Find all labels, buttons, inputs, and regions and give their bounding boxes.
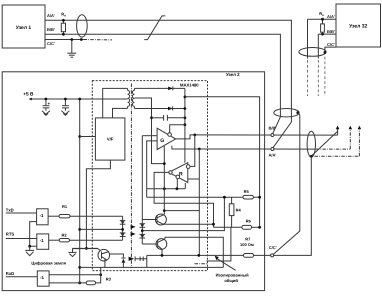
isolated common rail bbox=[147, 255, 244, 267]
wire B diagonal to terminal bbox=[273, 117, 281, 134]
isolated VCC rail right of transformer bbox=[184, 88, 186, 162]
resistor R6 bbox=[214, 225, 260, 229]
svg-text:общий: общий bbox=[224, 278, 238, 283]
junction dot C1 bbox=[45, 98, 48, 101]
resistor R4 bbox=[229, 197, 234, 227]
opto arrow 2 bbox=[131, 232, 136, 236]
junction dot A sense ground bbox=[197, 254, 200, 257]
wire gate3 input bottom R3 bbox=[49, 275, 101, 285]
wire RxD loop line bbox=[80, 266, 224, 268]
node box Узел 2 bbox=[2, 72, 264, 291]
terminal C/C' bbox=[271, 254, 274, 257]
svg-text:R1: R1 bbox=[62, 204, 68, 209]
junction dot A line bbox=[198, 148, 201, 151]
resistor R7 bbox=[244, 254, 271, 258]
twisted pair ellipse node1 bbox=[77, 15, 88, 37]
wire R output left down bbox=[154, 172, 213, 227]
junction dot rail RxD loop bbox=[78, 266, 81, 269]
svg-text:R2: R2 bbox=[62, 232, 68, 237]
junction dot gate2 input bbox=[28, 245, 31, 248]
wire A diagonal to terminal bbox=[273, 122, 291, 148]
cable break symbol bbox=[144, 16, 165, 40]
wire Q2 base bbox=[142, 243, 157, 245]
wire diagonal continuation solid arrow bbox=[312, 129, 338, 156]
svg-text:A/A': A/A' bbox=[269, 153, 277, 158]
junction dot center tap cap bbox=[150, 116, 153, 119]
wire TxD bbox=[6, 212, 37, 214]
svg-text:G: G bbox=[160, 138, 164, 144]
junction dot photo mid bbox=[141, 229, 144, 232]
arrow +5V bbox=[29, 98, 32, 101]
junction dot RxD top bbox=[99, 273, 102, 276]
arrow up dash-dot 3 bbox=[358, 126, 362, 130]
svg-text:A/A': A/A' bbox=[47, 13, 55, 18]
opto arrow 1 bbox=[131, 225, 136, 229]
junction dot C-ground node1 bbox=[70, 38, 73, 41]
junction dot shield-C node1 bbox=[80, 38, 83, 41]
wire VF input bbox=[80, 136, 96, 138]
wire transformer right bottom tap D2 line bbox=[134, 108, 185, 110]
junction dot sense 1 bbox=[163, 187, 166, 190]
bubble R input top bbox=[186, 165, 190, 169]
junction dot sense 2 bbox=[176, 187, 179, 190]
junction dot R5 left bbox=[223, 196, 226, 199]
junction dot rail R3 bbox=[78, 282, 81, 285]
ground earth node1 bbox=[67, 40, 76, 58]
opto arrow 3 bbox=[129, 256, 136, 261]
terminal B/B' bbox=[271, 134, 274, 137]
terminal A/A' bbox=[271, 148, 274, 151]
wire G bubble to VCC rail bbox=[170, 125, 185, 133]
svg-text:+5 В: +5 В bbox=[23, 91, 34, 97]
svg-text:Узел 2: Узел 2 bbox=[226, 72, 240, 77]
wire B sense drop bbox=[190, 135, 195, 167]
junction dot R6 right bbox=[258, 226, 261, 229]
junction dot B line bbox=[193, 134, 196, 137]
wire transformer left bottom tap bbox=[113, 108, 128, 118]
block V/F bbox=[95, 118, 125, 160]
wire G lower output to A line bbox=[172, 146, 199, 149]
svg-text:Rн: Rн bbox=[319, 11, 324, 17]
junction dot shield right ellipse bbox=[310, 155, 313, 158]
junction dot G bubble feed bbox=[184, 123, 187, 126]
svg-text:Цифровая земля: Цифровая земля bbox=[31, 260, 66, 265]
svg-text:R7: R7 bbox=[245, 237, 251, 242]
wire A/A' line bbox=[199, 148, 350, 150]
transformer T1 bbox=[128, 88, 135, 108]
diode D1 bbox=[168, 86, 173, 90]
wire G tap vertical bbox=[163, 146, 165, 214]
svg-text:R6: R6 bbox=[246, 219, 252, 224]
wire G input lower bbox=[147, 141, 157, 197]
svg-text:RTS: RTS bbox=[6, 232, 15, 237]
bubble R input lower bbox=[176, 175, 180, 179]
wire LED mid bias bbox=[80, 228, 123, 230]
twisted pair ellipse right bbox=[307, 131, 315, 157]
wire Q1 base bbox=[142, 219, 157, 221]
wire RxD out bbox=[6, 276, 38, 278]
svg-text:MAX1480: MAX1480 bbox=[180, 83, 199, 88]
wire VF return to digital ground rail bbox=[86, 160, 110, 248]
resistor Rн node1 bbox=[61, 20, 65, 34]
junction dot rail VF input bbox=[78, 135, 81, 138]
junction dot T1 collector bbox=[163, 209, 166, 212]
wire B stub node32 bbox=[318, 34, 336, 96]
svg-text:Узел 1: Узел 1 bbox=[16, 25, 32, 31]
+5V supply bbox=[31, 98, 128, 100]
wire bus C common from node1 bbox=[45, 39, 112, 41]
svg-text:-1: -1 bbox=[40, 238, 44, 243]
capacitor filter bbox=[152, 115, 185, 121]
wire R4 bottom hook bbox=[207, 227, 231, 261]
wire sense line y189 bbox=[147, 183, 186, 189]
gate U2 bbox=[37, 234, 49, 249]
wire loop to RxD gate bbox=[100, 267, 102, 274]
svg-text:R5: R5 bbox=[244, 189, 250, 194]
svg-text:C/C': C/C' bbox=[269, 245, 277, 250]
junction dot rail top bbox=[78, 98, 81, 101]
resistor R1 bbox=[48, 215, 123, 218]
ground chevron R2 bbox=[69, 252, 77, 256]
capacitor C1 polarized bbox=[43, 99, 50, 111]
photodiode bottom bars bbox=[135, 257, 147, 262]
junction dot Q1 emitter join bbox=[212, 223, 215, 226]
svg-text:-1: -1 bbox=[40, 213, 44, 218]
svg-text:R3: R3 bbox=[106, 276, 112, 281]
arrow up dash-dot 2 bbox=[349, 126, 353, 130]
wire A stub node32 bbox=[308, 19, 337, 96]
ground digital gates bbox=[25, 246, 34, 256]
wire bus A from node1 bbox=[45, 20, 291, 122]
digital rail vertical bbox=[79, 99, 81, 283]
wire transformer left top tap bbox=[103, 88, 128, 118]
wire RTS bbox=[6, 238, 37, 240]
wire A sense drop bbox=[188, 149, 200, 255]
junction dot center tap link bbox=[163, 162, 166, 165]
transistor Q2 bbox=[156, 239, 167, 256]
driver G triangle bbox=[157, 128, 176, 149]
receiver R triangle bbox=[169, 163, 188, 183]
resistor Rн node32 bbox=[321, 19, 325, 34]
junction dot Q2 emitter bbox=[161, 254, 164, 257]
junction dot R5 right bbox=[258, 196, 261, 199]
wire T1 collector to A sense bbox=[164, 210, 199, 212]
gate U3 bbox=[37, 271, 49, 286]
junction dot ground rail bbox=[85, 247, 88, 250]
junction dot filter cap bbox=[184, 116, 187, 119]
callout arrow isolated common bbox=[215, 256, 236, 270]
svg-text:C/C': C/C' bbox=[327, 42, 335, 47]
chip dashed box MAX1480 bbox=[92, 81, 207, 271]
svg-text:Узел 32: Узел 32 bbox=[349, 23, 367, 29]
svg-text:B/B': B/B' bbox=[269, 126, 277, 131]
ground arrow C1 bbox=[42, 111, 50, 116]
optocoupler LED column bbox=[120, 216, 126, 240]
junction dot LED mid bbox=[121, 228, 124, 231]
arrow up solid bbox=[336, 126, 340, 130]
resistor R5 bbox=[147, 195, 260, 199]
transistor Q1 bbox=[155, 214, 213, 225]
ground arrow C2 bbox=[61, 111, 69, 116]
twisted pair ellipse node2 stub bbox=[274, 109, 299, 117]
wire opto1 output vertical bbox=[141, 136, 143, 220]
junction dot A-Rн node32 bbox=[321, 18, 324, 21]
transistor Q3 bbox=[98, 249, 110, 267]
diode bottom opto bbox=[121, 258, 125, 267]
junction dot C2 bbox=[64, 98, 67, 101]
svg-text:100 Ом: 100 Ом bbox=[240, 242, 254, 247]
label Изолированный общий bbox=[216, 272, 250, 283]
wire C stub node32 bbox=[325, 47, 336, 96]
svg-text:Rн: Rн bbox=[61, 12, 66, 18]
bubble G output bbox=[168, 133, 172, 137]
wire C isolated common up right bbox=[274, 156, 312, 255]
wire gate3 input top bbox=[49, 274, 101, 276]
isolation axis dash-dot bbox=[130, 84, 132, 269]
junction dot A-Rн node1 bbox=[62, 19, 65, 22]
junction dot rectifier out2 bbox=[184, 107, 187, 110]
wire transformer right top tap D1 line bbox=[134, 87, 185, 89]
wire bus B from node1 bbox=[45, 34, 280, 117]
svg-text:B/B': B/B' bbox=[327, 29, 335, 34]
svg-text:Изолированный: Изолированный bbox=[216, 272, 250, 277]
wire dash-dot from shield right bbox=[315, 129, 360, 156]
svg-text:A/A': A/A' bbox=[327, 14, 335, 19]
junction dot rail LED mid bbox=[78, 228, 81, 231]
photodiode column bbox=[140, 220, 146, 245]
wire Q3 base bbox=[73, 249, 100, 251]
bubble R output apex bbox=[169, 171, 172, 174]
svg-text:-1: -1 bbox=[40, 275, 44, 280]
wire G input top bbox=[142, 135, 157, 137]
wire photo mid to R5 rail bbox=[142, 197, 224, 230]
junction dot shield node32 bbox=[324, 51, 327, 54]
wire R lower bubble down bbox=[176, 179, 178, 189]
wire G apex output to B line bbox=[176, 135, 195, 139]
svg-text:B/B': B/B' bbox=[47, 27, 55, 32]
wire Q3 collector bbox=[110, 254, 124, 257]
wire gate2 input2 bbox=[30, 245, 37, 247]
isolation barrier stub bottom bbox=[195, 263, 208, 265]
wire B/B' line bbox=[195, 134, 338, 136]
wire dash-dot up arrow 2 bbox=[349, 129, 351, 149]
resistor R2 bbox=[49, 239, 123, 242]
wire isolated VCC to right rail bbox=[185, 97, 260, 228]
svg-text:R4: R4 bbox=[236, 208, 242, 213]
wire C shield down to C/C' bbox=[273, 113, 299, 255]
gate U1 bbox=[37, 209, 49, 225]
junction dot B-Rн node32 bbox=[321, 33, 324, 36]
svg-text:C/C': C/C' bbox=[47, 41, 55, 46]
capacitor C2 bbox=[62, 99, 69, 111]
node box Узел 32 bbox=[336, 4, 381, 47]
wire gate1 input2 bbox=[30, 222, 37, 247]
svg-text:TxD: TxD bbox=[6, 207, 14, 212]
diode D2 bbox=[168, 107, 173, 111]
junction dot shield node2 stub bbox=[296, 111, 299, 114]
junction dot B-Rн node1 bbox=[62, 33, 65, 36]
wire Q2 collector loop bbox=[165, 237, 223, 267]
twisted pair ellipse node32 bbox=[299, 48, 326, 57]
wire digital ground line bbox=[73, 248, 99, 252]
svg-text:RxD: RxD bbox=[6, 271, 14, 276]
wire transformer right center tap bbox=[134, 98, 164, 164]
junction dot rectifier out1 bbox=[184, 96, 187, 99]
svg-text:V/F: V/F bbox=[107, 137, 114, 142]
node box Узел 1 bbox=[2, 5, 45, 48]
